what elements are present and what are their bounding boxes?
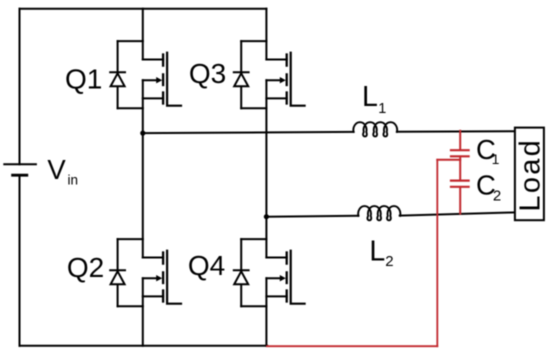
load box — [515, 128, 544, 221]
svg-text:in: in — [68, 173, 79, 188]
svg-text:1: 1 — [492, 151, 500, 167]
svg-text:Q2: Q2 — [67, 252, 104, 283]
wire left leg lower (Q2 source to bottom rail) — [142, 278, 144, 346]
wire bottom rail — [20, 345, 268, 347]
svg-text:L: L — [362, 81, 378, 113]
svg-text:1: 1 — [378, 101, 386, 117]
wire red return vertical — [436, 160, 438, 346]
svg-text:Q4: Q4 — [188, 250, 225, 281]
battery Vin negative plate — [13, 174, 27, 177]
svg-text:2: 2 — [493, 188, 501, 205]
wire top rail — [20, 8, 267, 10]
wire C2 to node B (red) — [459, 188, 461, 214]
wire left leg (node A to Q2 drain) — [142, 133, 144, 257]
svg-text:L: L — [369, 235, 385, 267]
wire capacitor midpoint branch (red) — [437, 159, 460, 161]
inductor L1 — [353, 122, 397, 136]
wire L1 to load — [397, 130, 516, 133]
svg-text:Q3: Q3 — [189, 58, 226, 89]
wire node A to L1 — [143, 132, 354, 133]
wire left rail upper (Vin +) — [19, 9, 21, 165]
node A junction dot — [140, 131, 145, 136]
capacitor C1 — [451, 150, 469, 156]
wire left rail lower (Vin -) — [19, 175, 21, 346]
inductor L2 — [358, 206, 400, 220]
wire C1 to C2 (red) — [459, 157, 461, 179]
wire red return bottom — [267, 345, 437, 347]
battery Vin positive plate — [4, 163, 36, 165]
wire left leg upper (top rail to Q1 drain) — [142, 9, 144, 60]
wire L2 to load — [400, 212, 516, 215]
capacitor C2 — [451, 181, 469, 187]
node B junction dot — [264, 214, 269, 219]
wire right leg lower (Q4 source to bottom rail) — [265, 278, 267, 346]
transistor Q2 — [110, 239, 181, 306]
transistor Q1 — [110, 41, 181, 108]
svg-text:V: V — [47, 154, 66, 185]
wire node B to L2 — [266, 215, 358, 218]
transistor Q3 — [234, 41, 305, 108]
svg-text:Load: Load — [515, 138, 547, 212]
wire right leg mid (Q3 source to node B, crosses node A wire) — [265, 80, 267, 217]
wire left leg mid (Q1 source to node A) — [142, 80, 144, 133]
wire right leg (node B to Q4 drain) — [265, 217, 267, 258]
transistor Q4 — [234, 239, 305, 306]
svg-text:Q1: Q1 — [65, 63, 102, 94]
svg-text:2: 2 — [385, 253, 393, 270]
wire right leg upper (top rail to Q3 drain) — [265, 9, 267, 60]
wire node A to C1 (red) — [459, 131, 461, 149]
